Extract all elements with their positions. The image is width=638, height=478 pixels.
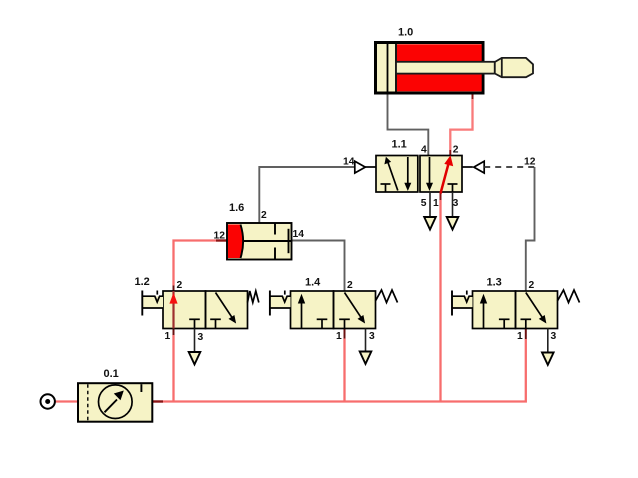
svg-text:3: 3 xyxy=(369,331,375,342)
svg-text:4: 4 xyxy=(421,145,427,156)
svg-text:14: 14 xyxy=(343,157,355,168)
valve 1.2 return spring xyxy=(248,291,259,303)
svg-text:0.1: 0.1 xyxy=(104,368,119,380)
wire branch to valve 1.4 port 1 xyxy=(343,329,345,402)
valve 1.1 pilot 14 triangle xyxy=(355,161,376,173)
svg-text:3: 3 xyxy=(198,332,204,343)
valve 1.1 left box arrow 2-3 xyxy=(404,157,411,191)
svg-text:2: 2 xyxy=(347,280,353,291)
svg-text:1.3: 1.3 xyxy=(487,277,502,289)
shuttle valve 1.6 xyxy=(227,223,292,260)
svg-text:2: 2 xyxy=(177,280,183,291)
valve 1.3 right box arrow 2-3 xyxy=(526,293,547,324)
wire source 0.1 to box xyxy=(55,400,78,402)
svg-text:2: 2 xyxy=(453,145,459,156)
svg-text:1.2: 1.2 xyxy=(135,276,150,288)
wire cylinder 1.0 left port to valve 1.1 port 4 xyxy=(388,93,429,156)
valve 1.3 left box blocked port xyxy=(499,319,510,328)
valve 1.4 return spring xyxy=(376,290,398,303)
svg-text:1.1: 1.1 xyxy=(392,139,407,151)
valve 1.4 pushbutton actuator xyxy=(270,291,291,316)
valve 1.2 right box blocked port 1 xyxy=(210,319,221,328)
valve 1.4 exhaust triangle port 3 xyxy=(360,329,372,364)
compressed air source 0.1 xyxy=(41,394,55,408)
valve 1.4 left box arrow 1-2 xyxy=(298,294,305,329)
valve 1.2 red arrow 1-2 xyxy=(169,291,177,329)
svg-text:2: 2 xyxy=(261,210,267,221)
valve 1.1 left box blocked port 5 xyxy=(381,184,391,192)
valve 1.3 return spring xyxy=(558,290,580,303)
svg-text:1: 1 xyxy=(336,331,342,342)
valve 1.4 left box blocked port xyxy=(317,319,328,328)
valve 1.2 labels xyxy=(135,276,204,343)
valve 1.3 labels xyxy=(487,277,557,343)
valve 1.4 right box arrow 2-3 xyxy=(345,293,366,324)
valve 1.2 body xyxy=(163,291,248,329)
wire dashed pilot 12 xyxy=(484,166,534,168)
service unit 0.1 box with gauge xyxy=(78,383,152,422)
valve 1.4 right box blocked port 1 xyxy=(339,319,350,328)
svg-text:3: 3 xyxy=(551,331,557,342)
svg-text:1.6: 1.6 xyxy=(229,202,244,214)
shuttle 1.6 labels xyxy=(214,202,305,242)
wire valve 1.2 port 2 to shuttle 1.6 port 12 xyxy=(174,241,228,292)
cylinder 1.0 xyxy=(376,43,534,94)
valve 1.1 left box arrow 1-4 xyxy=(384,157,397,191)
wire cylinder 1.0 right port to valve 1.1 port 2 xyxy=(450,93,472,156)
valve 1.3 body xyxy=(473,291,558,329)
svg-text:3: 3 xyxy=(453,198,459,209)
valve 1.1 right box blocked port 3 xyxy=(448,184,458,192)
valve 1.3 pushbutton actuator xyxy=(452,291,473,316)
svg-text:1.4: 1.4 xyxy=(305,277,321,289)
valve 1.1 body xyxy=(376,156,462,193)
valve 1.2 right box arrow 2-3 xyxy=(216,293,237,324)
valve 1.2 pushbutton actuator xyxy=(142,291,163,316)
svg-text:12: 12 xyxy=(214,231,226,242)
svg-text:1.0: 1.0 xyxy=(398,27,413,39)
svg-text:12: 12 xyxy=(524,157,536,168)
valve 1.2 exhaust triangle port 3 xyxy=(189,329,201,365)
wire shuttle 1.6 port 2 to valve 1.1 pilot 14 xyxy=(259,167,355,223)
wire supply manifold from 0.1 to valve 1.3 port 1 xyxy=(152,329,526,402)
valve 1.3 exhaust triangle port 3 xyxy=(542,329,554,365)
svg-text:1: 1 xyxy=(517,331,523,342)
valve 1.3 right box blocked port 1 xyxy=(521,319,532,328)
wire branch to valve 1.2 port 1 xyxy=(172,329,174,402)
wire branch riser to valve 1.1 port 1 xyxy=(439,192,441,402)
valve 1.4 labels xyxy=(305,277,375,343)
valve 1.1 right box red arrow 1-2 xyxy=(441,155,454,193)
wire shuttle 1.6 port 14 to valve 1.4 port 2 xyxy=(292,241,345,292)
svg-text:14: 14 xyxy=(293,229,305,240)
valve 1.4 body xyxy=(291,291,376,329)
valve 1.1 labels xyxy=(343,139,536,209)
valve 1.3 left box arrow 1-2 xyxy=(480,294,487,329)
svg-text:1: 1 xyxy=(433,198,439,209)
valve 1.1 pilot 12 triangle xyxy=(462,161,484,173)
valve 1.1 exhaust triangle port 5 xyxy=(424,192,436,230)
valve 1.2 blocked port 3 xyxy=(189,319,200,328)
valve 1.1 right box arrow 4-5 xyxy=(426,157,433,191)
svg-text:2: 2 xyxy=(529,280,535,291)
wire valve 1.1 pilot 12 to valve 1.3 port 2 xyxy=(526,167,535,291)
valve 1.1 exhaust triangle port 3 xyxy=(447,192,459,230)
svg-text:1: 1 xyxy=(165,331,171,342)
svg-text:5: 5 xyxy=(421,198,427,209)
